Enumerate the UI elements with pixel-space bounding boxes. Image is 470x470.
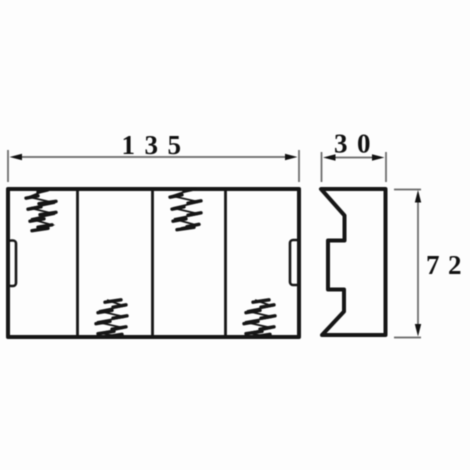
svg-text:135: 135 xyxy=(122,130,191,160)
svg-text:30: 30 xyxy=(334,129,380,159)
svg-text:72: 72 xyxy=(426,250,470,280)
